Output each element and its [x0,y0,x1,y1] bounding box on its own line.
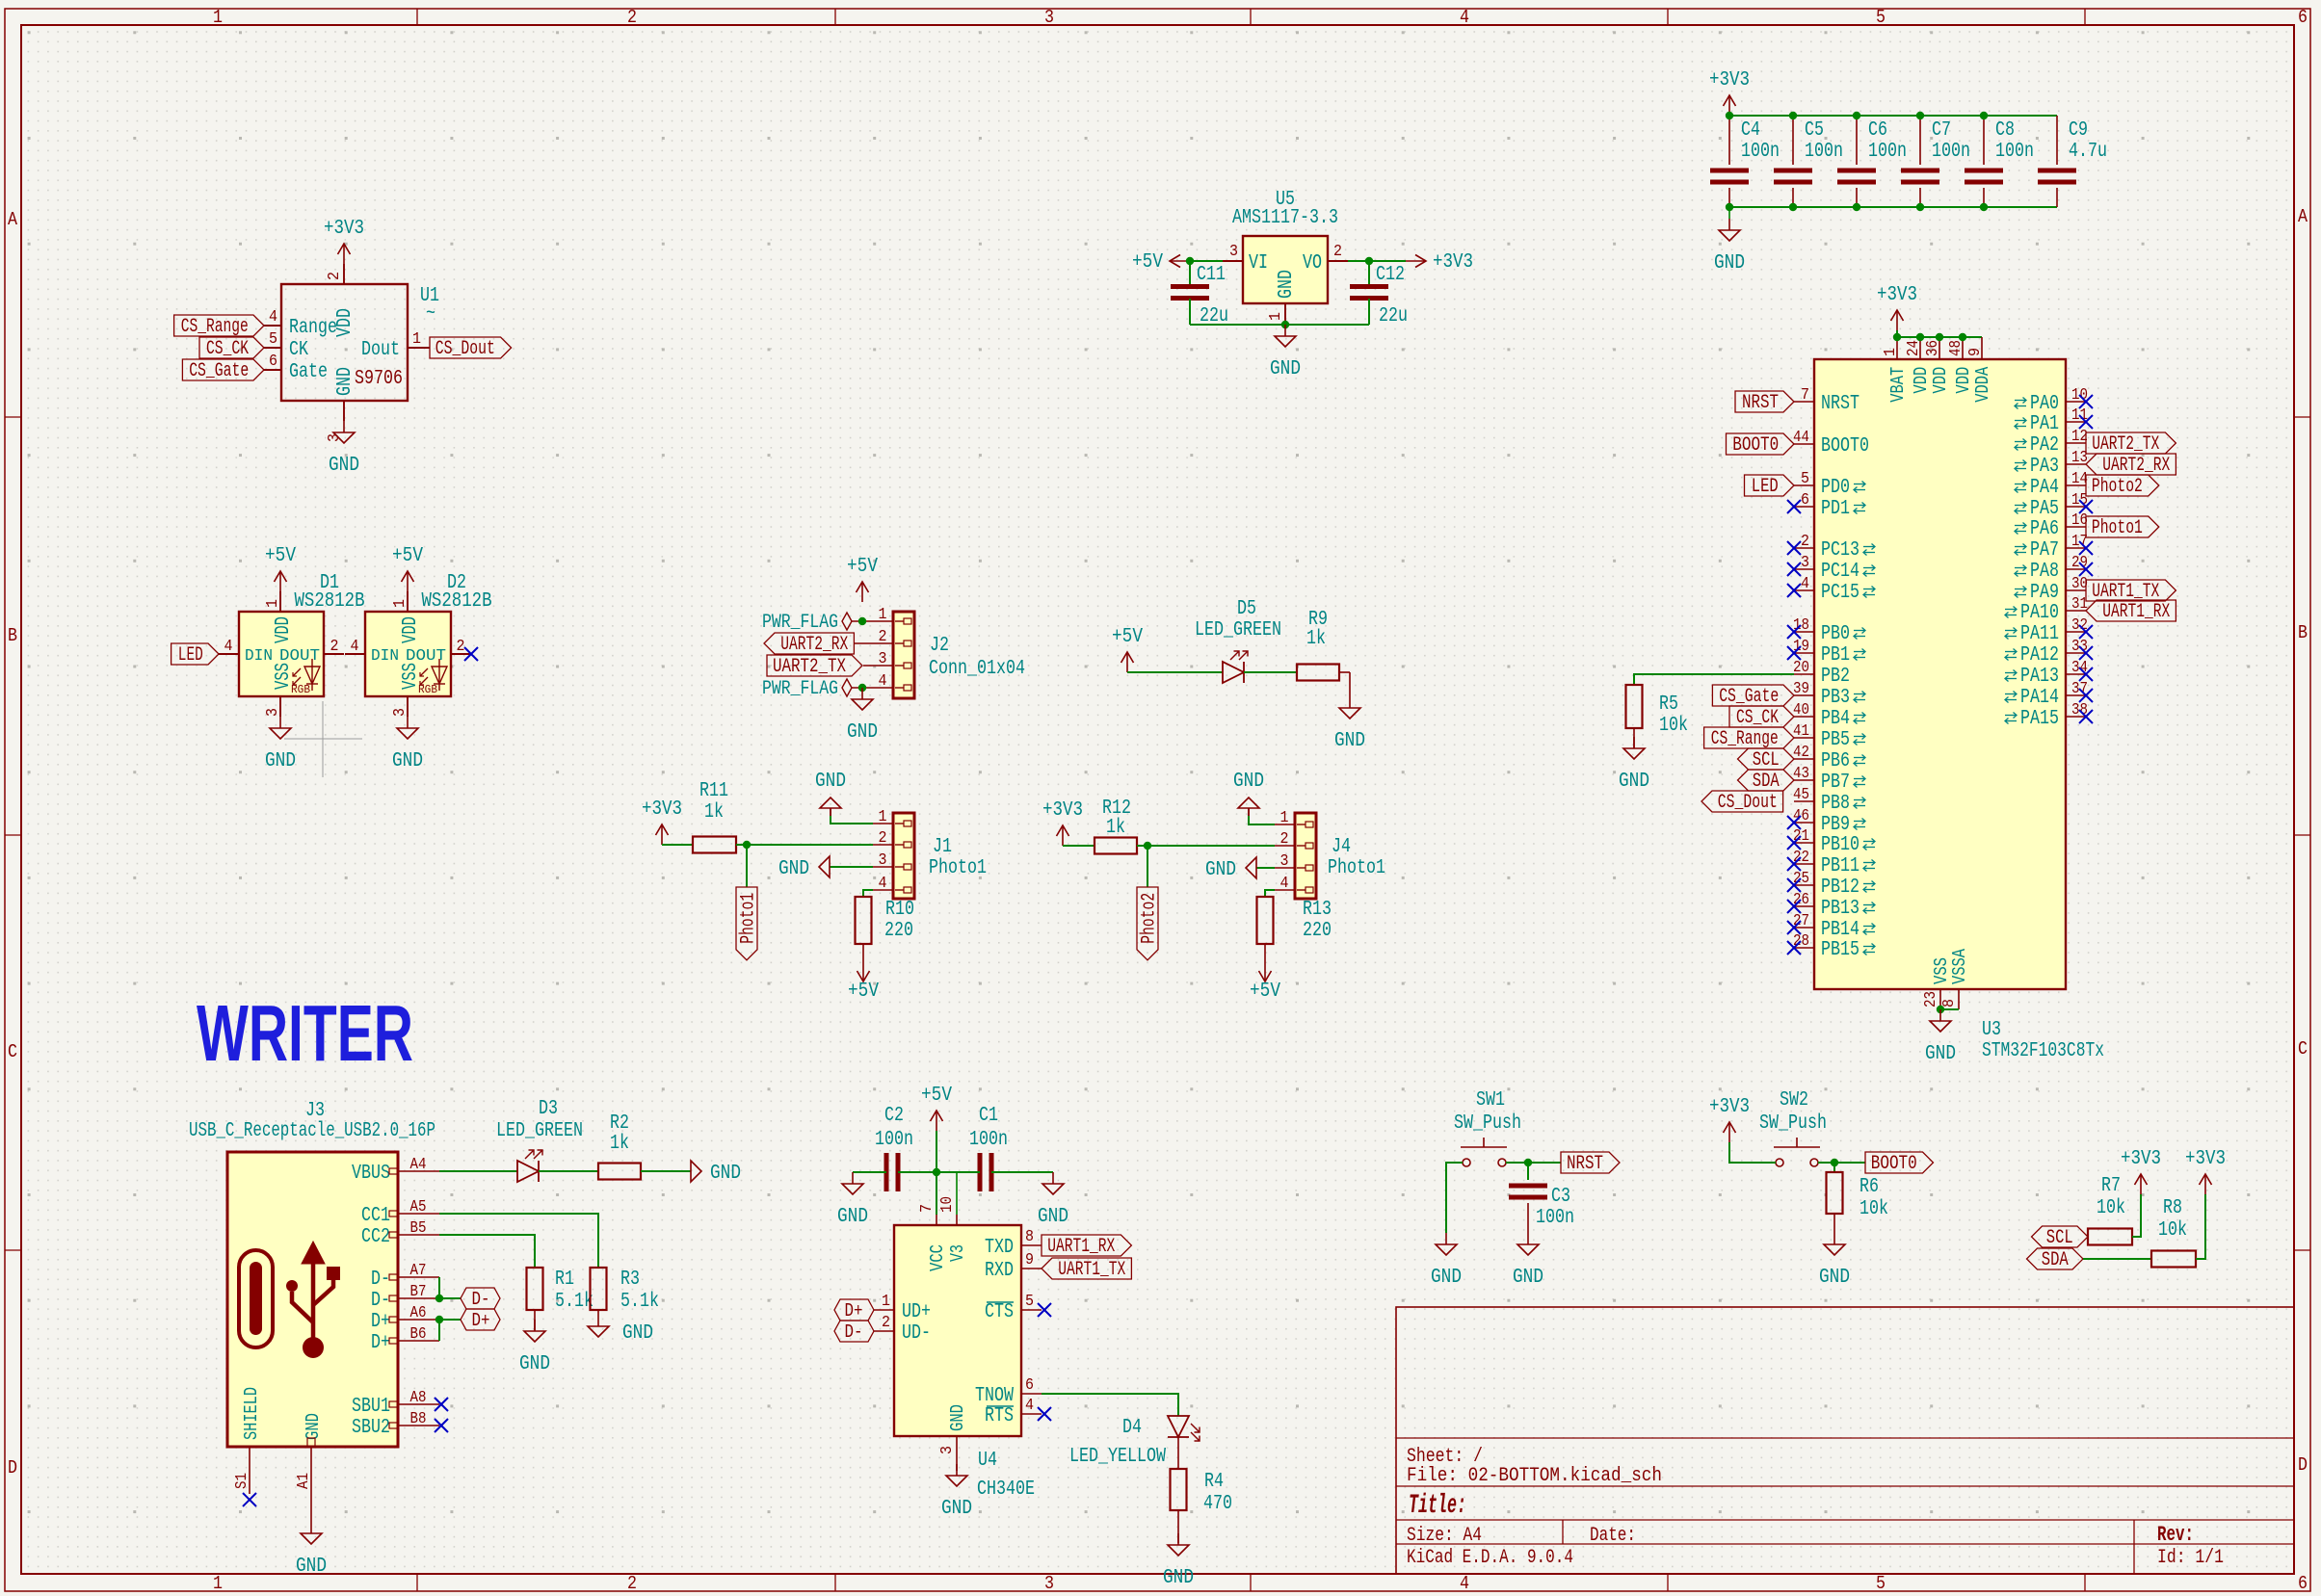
title block frame [1396,1307,2294,1574]
connector J3 USB_C body [227,1152,398,1447]
svg-text:45: 45 [1793,786,1809,804]
svg-text:C12: C12 [1376,264,1405,286]
wire J4 pin1 to gnd [1249,816,1275,824]
net label D+ at U4 [834,1299,874,1321]
wire SW1 to gnd [1446,1163,1463,1233]
D1 internal led glyph [304,667,320,684]
svg-text:VBAT: VBAT [1887,367,1909,403]
switch SW2 SW_Push [1776,1159,1783,1166]
svg-text:B: B [2298,622,2308,643]
U3 pin 15 PA5 [2066,506,2086,508]
svg-text:PB0: PB0 [1821,623,1850,645]
svg-text:GND: GND [1270,358,1301,380]
svg-text:+3V3: +3V3 [2185,1148,2226,1170]
no-connect U3 left [1787,941,1801,955]
net label Photo2 [2086,475,2159,496]
net label D+ at J3 [461,1309,500,1330]
junction U4 power [933,1168,940,1176]
svg-text:6: 6 [269,353,277,371]
junction top C4 [1726,112,1733,119]
J3 usb-c pill symbol [239,1250,273,1347]
svg-text:B: B [8,625,17,646]
svg-text:PA14: PA14 [2020,687,2059,709]
svg-text:8: 8 [1025,1228,1034,1246]
svg-text:CK: CK [289,339,308,361]
svg-text:GND: GND [947,1404,968,1431]
svg-text:SCL: SCL [1753,749,1780,772]
svg-text:C3: C3 [1551,1186,1570,1208]
ground at D2 [407,717,409,728]
wire R6 to gnd [1833,1214,1835,1233]
J3 pin A7 D- [398,1276,439,1278]
wire SW2 to BOOT0 [1818,1162,1865,1164]
net label CS_Range [1704,727,1794,748]
svg-text:WRITER: WRITER [197,988,413,1078]
svg-text:GND: GND [1163,1567,1194,1589]
svg-text:U4: U4 [978,1450,997,1472]
U3 pin 3 PC14 [1794,568,1814,570]
svg-text:3: 3 [391,708,409,717]
D1 pin 3 VSS [279,696,281,717]
svg-text:8: 8 [1940,999,1959,1007]
svg-text:D3: D3 [539,1098,558,1120]
svg-text:3: 3 [1044,1573,1054,1594]
svg-text:J1: J1 [933,836,952,858]
svg-text:22u: 22u [1379,305,1408,327]
svg-text:SW_Push: SW_Push [1759,1112,1827,1135]
wire +3V3 to SW2 [1729,1142,1776,1163]
svg-text:R3: R3 [620,1269,640,1291]
svg-text:+5V: +5V [1112,626,1143,648]
svg-text:R1: R1 [555,1269,574,1291]
svg-text:Gate: Gate [289,361,328,383]
svg-text:42: 42 [1793,744,1809,762]
resistor R7 [2088,1229,2132,1245]
svg-text:+3V3: +3V3 [642,798,682,821]
capacitor C7 plates [1901,169,1939,173]
svg-text:D-: D- [845,1321,863,1343]
junction D- [435,1295,443,1302]
J3 pin A6 D+ [398,1319,439,1321]
svg-text:CS_Dout: CS_Dout [435,338,495,360]
net label Photo2 flag [1137,887,1158,960]
svg-text:VSSA: VSSA [1949,949,1970,984]
svg-text:Date:: Date: [1590,1525,1636,1547]
svg-text:D-: D- [371,1269,390,1291]
svg-text:C: C [2298,1038,2308,1060]
net label BOOT0 at SW2 [1865,1152,1934,1173]
D2 internal led glyph [432,667,447,684]
svg-text:1: 1 [879,606,887,624]
J3 pin S1 SHIELD [249,1447,251,1467]
svg-text:3: 3 [879,650,887,668]
wire cap bank top rail [1729,115,2057,117]
J4 pin 2 [1275,845,1295,847]
net label UART2_TX [2086,432,2176,454]
svg-text:4: 4 [1280,875,1289,893]
capacitor C1 plates [978,1153,983,1191]
junction U3 top rail [1936,333,1943,341]
svg-text:100n: 100n [969,1129,1008,1151]
svg-text:D+: D+ [371,1311,390,1333]
svg-text:R13: R13 [1303,899,1332,921]
svg-text:PB4: PB4 [1821,708,1850,730]
svg-text:C11: C11 [1197,264,1226,286]
D2 pin 2 DOUT [451,653,471,655]
ground at C3 [1527,1233,1529,1244]
led D1 WS2812B body [239,612,324,696]
wire U5 VO to +3V3 [1348,260,1406,262]
svg-text:100n: 100n [1995,141,2034,163]
ground at U4 [956,1464,958,1476]
J1 pin 2 [873,844,893,846]
svg-text:4: 4 [879,875,887,893]
svg-text:USB_C_Receptacle_USB2.0_16P: USB_C_Receptacle_USB2.0_16P [189,1120,435,1142]
U3 pin 43 PB7 [1794,779,1814,781]
svg-text:5.1k: 5.1k [555,1291,593,1313]
svg-text:D-: D- [371,1290,390,1312]
J4 pin 4 [1275,889,1295,891]
svg-text:VDD: VDD [400,616,422,643]
svg-text:+3V3: +3V3 [1433,251,1473,274]
wire J1 pin1 to gnd [831,816,873,824]
wire +3V3 to R11 [662,844,693,846]
svg-text:C1: C1 [979,1105,998,1127]
svg-text:SHIELD: SHIELD [241,1387,262,1440]
svg-text:+5V: +5V [1132,251,1163,274]
svg-text:LED: LED [1752,476,1779,498]
capacitor C5 plates [1774,169,1812,173]
svg-text:A: A [2298,206,2308,227]
svg-text:PWR_FLAG: PWR_FLAG [762,678,838,700]
svg-text:Range: Range [289,317,337,339]
capacitor C6 column [1856,116,1858,165]
svg-text:10k: 10k [2097,1197,2125,1219]
svg-text:7: 7 [918,1204,936,1213]
power +5V at U4 [936,1111,937,1131]
svg-text:5: 5 [1025,1293,1034,1311]
power +3V3 at U3 [1896,310,1898,330]
svg-text:PB1: PB1 [1821,644,1850,667]
svg-text:RXD: RXD [985,1260,1014,1282]
svg-text:PA0: PA0 [2030,393,2059,415]
svg-text:B6: B6 [410,1325,427,1344]
svg-text:CS_Range: CS_Range [181,316,249,338]
net label LED [171,643,219,665]
R5 gnd stub [1633,728,1635,748]
no-connect U3 right [2079,646,2093,660]
junction J2 pin1 [858,617,866,625]
svg-text:2: 2 [627,1573,637,1594]
svg-text:UD-: UD- [902,1322,931,1345]
wire ground rail U5 [1190,324,1369,326]
svg-text:CS_Gate: CS_Gate [189,360,249,382]
no-connect U3 right [2079,689,2093,702]
resistor R3 [591,1268,607,1310]
U5 pin 2 VO [1328,260,1348,262]
svg-text:PB13: PB13 [1821,898,1859,920]
led D2 WS2812B body [365,612,451,696]
ground at SW1 [1445,1233,1447,1244]
junction top C5 [1789,112,1797,119]
switch SW1 SW_Push [1463,1159,1470,1166]
wire cap bank bottom rail [1729,206,2057,208]
resistor R6 [1827,1172,1843,1214]
svg-text:VO: VO [1303,252,1322,275]
capacitor C4 plates [1710,169,1749,173]
svg-text:4: 4 [351,638,359,656]
capacitor C5 column [1792,116,1794,165]
U3 pin 12 PA2 [2066,442,2086,444]
svg-text:C8: C8 [1995,119,2015,142]
U3 pin 36 VDD [1939,337,1940,359]
junction R12 Photo2 [1144,842,1151,850]
connector J2 body [893,612,914,698]
ic U1 S9706 body [281,284,408,401]
svg-text:5: 5 [1801,470,1809,488]
svg-text:44: 44 [1793,429,1809,447]
wire R7 to +3V3 [2132,1194,2141,1237]
svg-text:WS2812B: WS2812B [422,590,492,613]
svg-text:6: 6 [1025,1376,1034,1395]
svg-text:C7: C7 [1932,119,1951,142]
capacitor C8 plates [1965,169,2003,173]
power +3V3 at U1 [343,244,345,264]
svg-text:1: 1 [264,599,282,608]
svg-text:2: 2 [457,638,465,656]
net label CS_CK [1729,706,1794,727]
svg-text:3: 3 [1280,852,1289,871]
svg-text:10k: 10k [1859,1198,1888,1220]
wire R10 to +5V [862,944,864,961]
no-connect U3 right [2079,500,2093,513]
ground at R1 [534,1320,536,1331]
U3 pin 39 PB3 [1794,694,1814,696]
U3 pin 24 VDD [1919,337,1921,359]
net label NRST [1735,391,1794,412]
regulator U5 AMS1117-3.3 body [1243,236,1328,303]
net label CS_Dout [430,337,512,358]
U3 pin 9 VDDA [1981,337,1983,359]
wire junction to C1 [936,1171,980,1173]
svg-text:C2: C2 [884,1105,904,1127]
no-connect SBU2 [435,1419,448,1432]
no-connect U3 left [1787,625,1801,639]
no-connect U3 right [2079,395,2093,408]
capacitor C4 column [1728,116,1730,165]
J1 pin 3 [873,866,893,868]
U3 pin 19 PB1 [1794,652,1814,654]
net label SDA at R8 [2027,1248,2084,1269]
U3 pin 23 VSS [1939,989,1941,1009]
svg-text:2: 2 [627,7,637,28]
wire R11 to J1 pin2 [736,844,873,846]
junction bottom C5 [1789,203,1797,211]
svg-text:220: 220 [1303,920,1332,942]
J3 pin B5 CC2 [398,1234,439,1236]
svg-text:220: 220 [884,920,913,942]
svg-text:+3V3: +3V3 [2121,1148,2161,1170]
svg-text:4: 4 [1460,7,1469,28]
svg-text:2: 2 [326,272,344,280]
power +5V at J2 [861,582,863,602]
U3 pin 29 PA8 [2066,568,2086,570]
no-connect U3 left [1787,921,1801,934]
svg-text:LED_GREEN: LED_GREEN [1195,619,1281,641]
J3 pin B6 D+ [398,1340,439,1342]
svg-text:PC13: PC13 [1821,539,1859,562]
mcu U3 STM32F103C8Tx body [1814,359,2066,989]
wire C2 to gnd [853,1171,886,1173]
wire R9 to gnd [1339,671,1350,673]
R1 gnd stub [534,1310,536,1330]
svg-text:DIN: DIN [245,647,273,666]
ground at U5 [1284,325,1286,336]
svg-text:+3V3: +3V3 [1877,284,1917,306]
wire SDA to R8 [2083,1258,2151,1260]
svg-text:PB14: PB14 [1821,919,1859,941]
net label CS_Gate [1712,685,1794,706]
svg-text:4: 4 [269,308,277,327]
ground at R3 [588,1326,609,1337]
no-connect SBU1 [435,1398,448,1411]
svg-text:A1: A1 [295,1473,313,1489]
no-connect U3 left [1787,584,1801,597]
U3 pin 6 PD1 [1794,506,1814,508]
no-connect at D2 DOUT [464,647,478,661]
svg-text:R11: R11 [699,780,728,802]
svg-text:2: 2 [882,1314,890,1332]
no-connect U3 left [1787,900,1801,913]
capacitor C11 plates [1171,284,1209,289]
svg-text:D+: D+ [472,1310,490,1331]
wire U3 top rail [1897,336,1982,338]
svg-text:C9: C9 [2069,119,2088,142]
svg-text:3: 3 [938,1446,957,1454]
svg-text:SBU2: SBU2 [352,1417,390,1439]
svg-text:C6: C6 [1868,119,1887,142]
svg-text:VDD: VDD [1930,367,1951,394]
junction U3 top rail [1959,333,1966,341]
svg-text:2: 2 [1280,830,1289,849]
led D4 LED_YELLOW [1168,1416,1189,1437]
svg-text:UART2_TX: UART2_TX [773,656,846,678]
U3 pin 45 PB8 [1794,800,1814,802]
svg-text:BOOT0: BOOT0 [1821,435,1869,458]
svg-text:PA13: PA13 [2020,666,2059,688]
svg-text:PA8: PA8 [2030,561,2059,583]
junction R11 Photo1 [743,841,751,849]
wire VBUS to D3 [439,1170,517,1172]
PWR_FLAG at J2 pin4 [842,679,852,696]
svg-text:SBU1: SBU1 [352,1396,390,1418]
no-connect U3 right [2079,415,2093,429]
svg-text:VI: VI [1249,252,1268,275]
svg-text:GND: GND [1334,730,1365,752]
power +3V3 at U5 [1406,260,1426,262]
connector J4 body [1295,813,1316,899]
svg-text:B7: B7 [410,1283,427,1301]
svg-text:1: 1 [879,808,887,826]
U4 pin 8 TXD [1021,1244,1042,1246]
svg-text:CC2: CC2 [361,1226,390,1248]
net label UART2_TX at J2 [767,655,862,676]
svg-text:GND: GND [1819,1267,1850,1289]
power +5V below R13 [1264,961,1266,981]
svg-text:PA10: PA10 [2020,602,2059,624]
svg-text:GND: GND [1513,1267,1543,1289]
ground right of C1 [1052,1172,1054,1184]
svg-text:Photo1: Photo1 [738,893,760,944]
svg-text:A: A [8,209,18,230]
svg-text:9: 9 [1025,1251,1034,1269]
svg-text:GND: GND [837,1206,868,1228]
svg-text:PB2: PB2 [1821,666,1850,688]
ground above J1 [830,808,831,816]
svg-text:PB9: PB9 [1821,814,1850,836]
svg-text:J3: J3 [305,1100,325,1122]
svg-text:C5: C5 [1805,119,1824,142]
svg-text:U3: U3 [1982,1019,2001,1041]
U3 pin 26 PB13 [1794,905,1814,907]
wire TNOW to D4 [1042,1394,1178,1416]
svg-text:7: 7 [1801,386,1809,405]
svg-text:4: 4 [879,672,887,691]
ground at D1 [279,717,281,728]
svg-text:1: 1 [882,1293,890,1311]
svg-text:RTS: RTS [985,1405,1014,1427]
ground at J2 [861,688,863,699]
PWR_FLAG at J2 pin1 [842,613,852,630]
wire PB2 to R5 [1634,674,1794,685]
net label CS_Range [174,315,264,336]
U3 pin 25 PB12 [1794,884,1814,886]
svg-text:1: 1 [213,7,223,28]
svg-text:GND: GND [392,750,423,772]
ground at U1 [343,421,345,432]
D2 pin 4 DIN [345,653,365,655]
svg-text:File: 02-BOTTOM.kicad_sch: File: 02-BOTTOM.kicad_sch [1407,1465,1662,1487]
U3 pin 41 PB5 [1794,737,1814,739]
U3 pin 33 PA12 [2066,652,2086,654]
svg-text:PA9: PA9 [2030,582,2059,604]
svg-text:R7: R7 [2101,1175,2121,1197]
svg-text:VDD: VDD [334,308,356,337]
capacitor C8 column [1983,116,1985,165]
svg-text:PWR_FLAG: PWR_FLAG [762,612,838,634]
svg-text:D+: D+ [371,1332,390,1354]
U4 pin 4 RTS [1021,1413,1042,1415]
U3 pin 40 PB4 [1794,716,1814,718]
U1 pin 4 Range [264,325,281,327]
svg-text:1: 1 [391,599,409,608]
svg-text:+5V: +5V [921,1085,952,1107]
svg-text:4: 4 [1460,1573,1469,1594]
net label UART2_RX [2086,454,2176,475]
U3 pin 22 PB11 [1794,863,1814,865]
cursor crosshair [284,738,362,740]
U3 pin 16 PA6 [2066,526,2086,528]
no-connect U3 left [1787,878,1801,892]
svg-text:1: 1 [213,1573,223,1594]
wire C1 to gnd [991,1171,1053,1173]
net label SCL at R7 [2032,1226,2089,1247]
wire CC2 to R1 [439,1235,535,1268]
wire to C3 [1527,1163,1529,1180]
ground at R9 [1349,696,1351,708]
U4 pin 2 UD- [874,1330,894,1332]
svg-text:24: 24 [1905,340,1923,356]
